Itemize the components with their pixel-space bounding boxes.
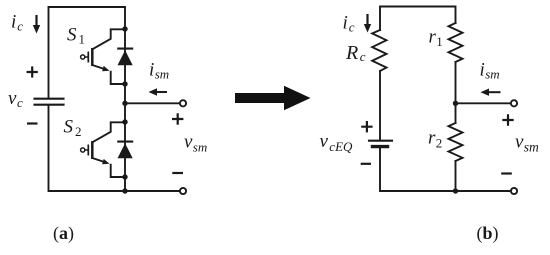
wire: left circuit vertical bus — [124, 7, 126, 191]
minus sign v_sm (right) — [501, 172, 512, 174]
svg-text:sm: sm — [155, 67, 169, 82]
junction dots right — [453, 101, 458, 194]
arrow: i_c direction right (down) — [364, 14, 371, 33]
minus sign v_sm (left) — [172, 172, 183, 174]
arrow: i_sm direction right (left) — [481, 89, 501, 96]
svg-text:v: v — [320, 131, 329, 152]
terminal: right output bottom — [511, 188, 517, 194]
diode D1 — [117, 49, 133, 66]
junction dots left bus — [122, 26, 127, 193]
svg-text:i: i — [149, 60, 154, 81]
svg-text:r: r — [429, 27, 437, 48]
svg-text:2: 2 — [75, 124, 82, 139]
wire: right circuit top rail — [380, 7, 456, 31]
svg-text:c: c — [17, 19, 23, 34]
plus sign capacitor — [27, 66, 38, 77]
plus sign battery — [361, 121, 372, 132]
svg-text:sm: sm — [524, 140, 539, 155]
battery vcEQ plates — [369, 140, 392, 142]
wire: left circuit output wire — [125, 102, 180, 104]
svg-text:v: v — [8, 88, 17, 109]
capacitor C (plates) — [35, 99, 64, 105]
svg-text:1: 1 — [79, 32, 86, 47]
terminal: left output top — [180, 100, 186, 106]
transistor Q2 (IGBT S2) — [81, 122, 125, 177]
svg-text:cEQ: cEQ — [329, 139, 353, 154]
wire: r2 to bottom rail — [455, 161, 457, 191]
transistor Q1 (IGBT S1) — [81, 29, 125, 84]
arrow: i_sm direction (left) — [149, 88, 168, 95]
svg-text:sm: sm — [193, 140, 207, 155]
svg-text:v: v — [515, 132, 524, 153]
resistor Rc (zigzag) — [372, 30, 386, 71]
svg-text:i: i — [480, 60, 485, 81]
svg-text:sm: sm — [485, 67, 499, 82]
svg-text:c: c — [17, 95, 23, 110]
svg-text:i: i — [11, 12, 16, 33]
minus sign battery — [361, 163, 371, 165]
svg-text:c: c — [360, 49, 366, 64]
terminal: left output bottom — [180, 188, 186, 194]
wire: Rc to battery — [379, 71, 381, 140]
svg-text:c: c — [349, 20, 355, 35]
svg-text:(a): (a) — [53, 223, 74, 244]
arrow: i_c direction (down) — [33, 15, 40, 34]
big transform arrow — [235, 86, 311, 111]
wire: node to right terminal — [456, 102, 511, 104]
wire: left circuit top rail — [49, 7, 126, 98]
resistor r2 (zigzag) — [449, 123, 463, 161]
plus sign v_sm (right) — [502, 114, 513, 125]
terminal: right output top — [511, 100, 517, 106]
svg-text:i: i — [343, 13, 348, 34]
svg-text:S: S — [64, 117, 74, 138]
resistor r1 (zigzag) — [449, 23, 463, 62]
wire: battery to bottom rail — [380, 148, 511, 191]
svg-text:r: r — [428, 128, 436, 149]
diode D2 — [117, 142, 133, 159]
plus sign v_sm (left) — [172, 113, 183, 124]
wire: left circuit bottom-left rail — [49, 105, 180, 191]
wire: r1 to node — [455, 62, 457, 123]
svg-text:v: v — [184, 132, 193, 153]
svg-text:2: 2 — [436, 136, 443, 151]
svg-text:S: S — [67, 25, 77, 46]
svg-text:R: R — [345, 42, 358, 64]
svg-text:1: 1 — [436, 34, 443, 49]
minus sign capacitor — [27, 122, 38, 124]
svg-text:(b): (b) — [477, 223, 499, 244]
